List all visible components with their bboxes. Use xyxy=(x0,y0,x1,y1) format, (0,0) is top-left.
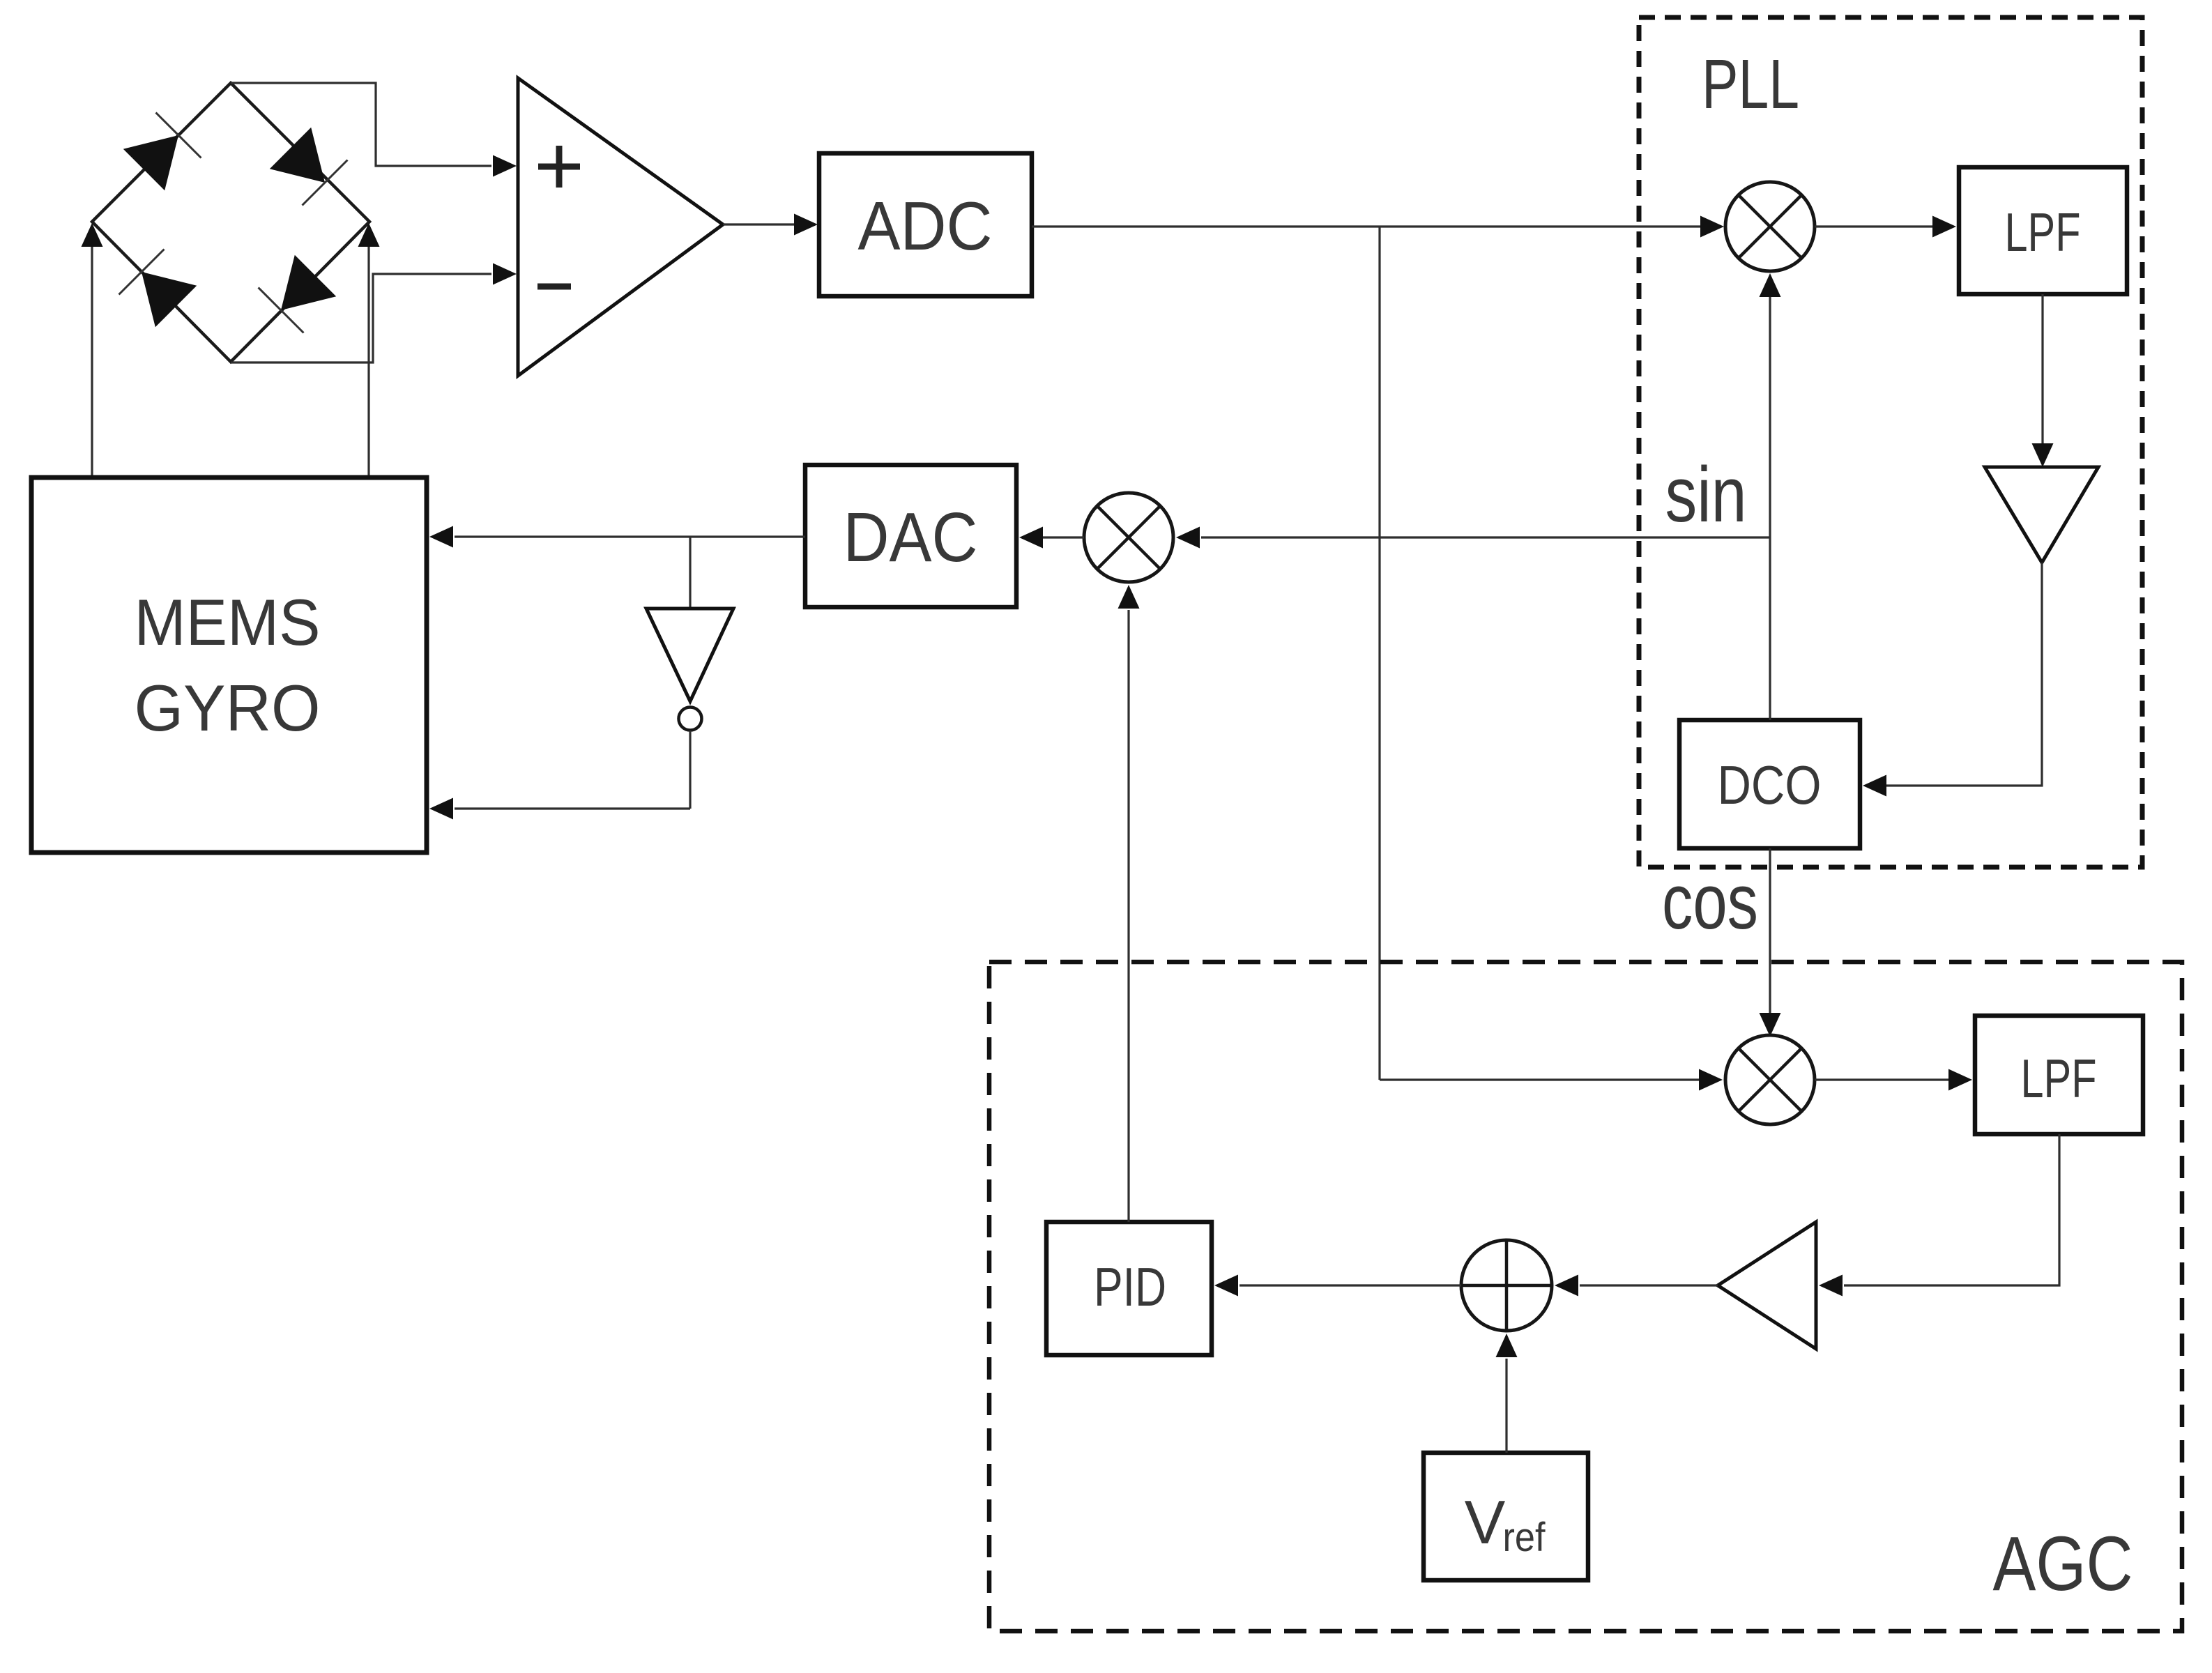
svg-text:PID: PID xyxy=(1094,1256,1166,1317)
svg-text:sin: sin xyxy=(1665,451,1747,538)
svg-text:GYRO: GYRO xyxy=(135,671,321,744)
svg-text:cos: cos xyxy=(1662,858,1758,945)
svg-text:DCO: DCO xyxy=(1718,754,1822,816)
svg-text:ref: ref xyxy=(1503,1515,1546,1560)
svg-text:AGC: AGC xyxy=(1993,1521,2133,1607)
svg-text:LPF: LPF xyxy=(2021,1048,2097,1109)
svg-text:ADC: ADC xyxy=(858,188,993,264)
svg-text:MEMS: MEMS xyxy=(135,586,321,659)
svg-text:LPF: LPF xyxy=(2005,201,2081,263)
svg-text:V: V xyxy=(1465,1488,1506,1557)
svg-text:PLL: PLL xyxy=(1702,45,1799,123)
svg-text:DAC: DAC xyxy=(844,498,978,576)
